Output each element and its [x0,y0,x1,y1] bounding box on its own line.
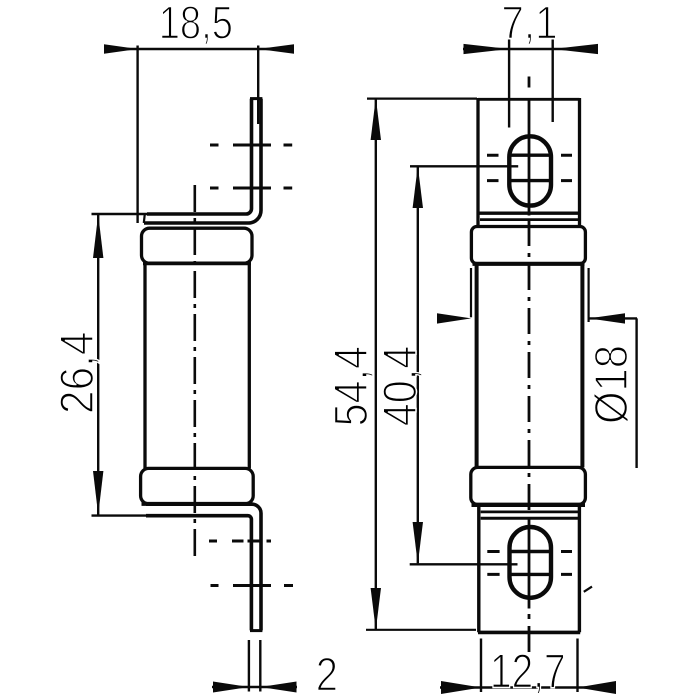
svg-text:18,5: 18,5 [159,0,233,50]
svg-text:2: 2 [316,649,338,700]
svg-text:54,4: 54,4 [326,346,378,426]
svg-text:Ø18: Ø18 [586,345,638,424]
svg-text:26,4: 26,4 [52,332,104,414]
svg-text:7,1: 7,1 [501,0,557,49]
svg-text:40,4: 40,4 [375,346,427,426]
svg-text:12,7: 12,7 [490,644,566,698]
